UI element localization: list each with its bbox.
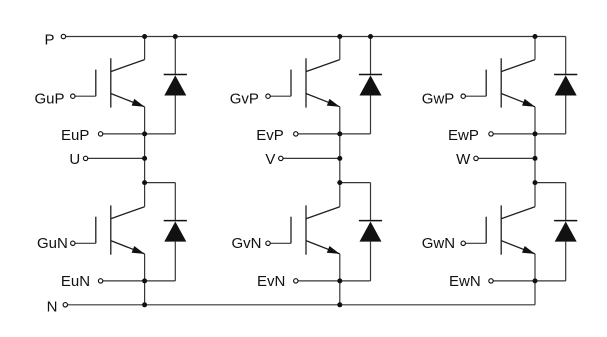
wire collector lead upper W — [534, 37, 536, 60]
terminal GwP — [461, 94, 465, 98]
junction P rail / collector W — [533, 34, 538, 39]
transistor IGBT uN (lower, leg U) — [96, 205, 145, 254]
wire EuP line — [103, 133, 176, 135]
terminal U — [83, 156, 87, 160]
junction P rail / upper diode U — [173, 34, 178, 39]
junction EvN line — [337, 278, 342, 283]
wire emitter lead upper U — [144, 107, 146, 134]
wire emitter lead upper W — [534, 107, 536, 134]
junction EwP line — [533, 131, 538, 136]
wire leg V to N rail — [339, 281, 341, 305]
wire emitter lead upper V — [339, 107, 341, 134]
junction EwN line — [533, 278, 538, 283]
svg-text:EvP: EvP — [256, 127, 284, 144]
terminal V — [279, 156, 283, 160]
wire leg W to N rail — [534, 281, 536, 305]
svg-text:EwP: EwP — [448, 127, 479, 144]
terminal EwP — [489, 132, 493, 136]
svg-text:EvN: EvN — [257, 273, 285, 290]
diode freewheel lower leg V — [359, 183, 382, 281]
svg-text:GvN: GvN — [232, 235, 262, 252]
terminal EuP — [98, 132, 102, 136]
junction phase V line — [337, 156, 342, 161]
terminal GvP — [266, 94, 270, 98]
wire lower diode branch U — [145, 182, 176, 184]
terminal GwN — [461, 241, 465, 245]
wire collector lead upper V — [339, 37, 341, 60]
junction phase W line — [533, 156, 538, 161]
transistor IGBT wP (upper, leg W) — [486, 58, 535, 107]
diode freewheel upper leg W — [554, 37, 577, 134]
terminal W — [474, 156, 478, 160]
wire N rail — [68, 304, 535, 306]
junction EuP line — [142, 131, 147, 136]
wire EuN line — [103, 280, 176, 282]
wire leg U to N rail — [144, 281, 146, 305]
svg-text:GuN: GuN — [37, 235, 68, 252]
wire gate lead GuN — [75, 242, 96, 244]
wire gate lead GvP — [270, 95, 291, 97]
wire main vertical leg V — [339, 134, 341, 207]
svg-text:EuP: EuP — [61, 127, 89, 144]
junction P rail / upper diode V — [368, 34, 373, 39]
wire lower diode branch V — [340, 182, 371, 184]
wire P rail — [66, 36, 566, 38]
diode freewheel lower leg U — [164, 183, 187, 281]
wire EvP line — [298, 133, 371, 135]
transistor IGBT wN (lower, leg W) — [486, 205, 535, 254]
svg-text:GwN: GwN — [422, 235, 455, 252]
wire emitter lead lower V — [339, 254, 341, 281]
terminal GvN — [266, 241, 270, 245]
svg-text:U: U — [69, 151, 80, 168]
wire gate lead GwP — [465, 95, 486, 97]
wire collector lead upper U — [144, 37, 146, 60]
transistor IGBT vN (lower, leg V) — [291, 205, 340, 254]
wire EwP line — [493, 133, 566, 135]
junction lower diode branch U — [142, 180, 147, 185]
junction N rail leg V — [337, 302, 342, 307]
wire gate lead GvN — [270, 242, 291, 244]
junction phase U line — [142, 156, 147, 161]
wire gate lead GuP — [75, 95, 96, 97]
terminal EvP — [294, 132, 298, 136]
wire gate lead GwN — [465, 242, 486, 244]
wire phase W line — [478, 157, 535, 159]
junction lower diode branch V — [337, 180, 342, 185]
transistor IGBT vP (upper, leg V) — [291, 58, 340, 107]
svg-text:EuN: EuN — [61, 273, 90, 290]
junction EuN line — [142, 278, 147, 283]
terminal GuN — [71, 241, 75, 245]
svg-text:V: V — [265, 151, 275, 168]
terminal EuN — [98, 279, 102, 283]
wire emitter lead lower W — [534, 254, 536, 281]
wire lower diode branch W — [535, 182, 566, 184]
svg-text:GvP: GvP — [230, 91, 259, 108]
junction EvP line — [337, 131, 342, 136]
wire EvN line — [298, 280, 371, 282]
diode freewheel upper leg U — [164, 37, 187, 134]
terminal GuP — [71, 94, 75, 98]
junction P rail / collector U — [142, 34, 147, 39]
terminal EvN — [294, 279, 298, 283]
wire phase U line — [88, 157, 145, 159]
svg-text:GwP: GwP — [422, 91, 455, 108]
svg-text:W: W — [456, 151, 471, 168]
terminal N — [63, 303, 67, 307]
svg-text:EwN: EwN — [449, 273, 481, 290]
wire emitter lead lower U — [144, 254, 146, 281]
svg-text:N: N — [47, 298, 58, 315]
wire EwN line — [493, 280, 566, 282]
junction lower diode branch W — [533, 180, 538, 185]
transistor IGBT uP (upper, leg U) — [96, 58, 145, 107]
svg-text:P: P — [44, 31, 54, 48]
wire main vertical leg U — [144, 134, 146, 207]
diode freewheel lower leg W — [554, 183, 577, 281]
svg-text:GuP: GuP — [34, 91, 64, 108]
wire phase V line — [283, 157, 340, 159]
junction N rail leg U — [142, 302, 147, 307]
junction P rail / collector V — [337, 34, 342, 39]
wire main vertical leg W — [534, 134, 536, 207]
terminal P — [61, 34, 65, 38]
terminal EwN — [489, 279, 493, 283]
diode freewheel upper leg V — [359, 37, 382, 134]
